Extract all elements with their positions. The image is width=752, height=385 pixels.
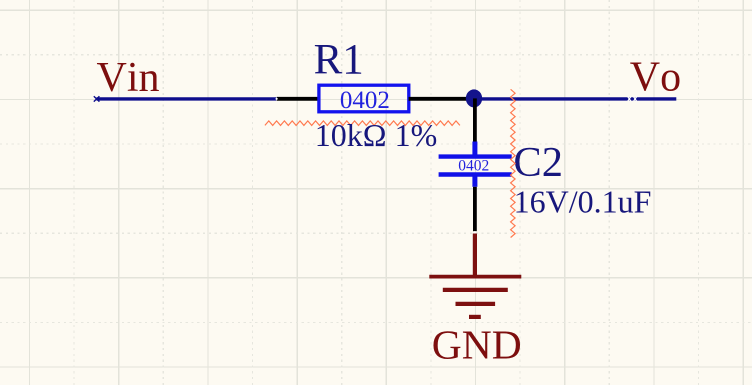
capacitor C2 pin 2 (black, down) [473,187,477,231]
ground bar 1 [429,275,521,279]
capacitor C2 plates [439,154,512,158]
svg-text:0402: 0402 [340,87,390,114]
wire cross markers near Vo label anchor [628,97,637,102]
compile-mask zigzag vertical right of C2 [511,89,515,237]
ground symbol GND [429,277,521,317]
svg-text:R1: R1 [314,36,364,83]
svg-text:0402: 0402 [458,157,489,174]
svg-text:10kΩ 1%: 10kΩ 1% [315,117,437,153]
resistor R1 pin 1 (black) [277,97,318,101]
ground bar 2 [443,288,508,292]
resistor R1 body [319,85,409,112]
svg-text:C2: C2 [513,139,563,186]
ground bar 4 [469,315,481,319]
svg-text:16V/0.1uF: 16V/0.1uF [514,184,652,220]
pin endpoint dot [276,98,278,100]
resistor R1 pin 2 (black) [409,97,474,101]
compile-mask zigzag under R1 [265,121,460,126]
capacitor C2 pin stubs (blue) [472,142,477,156]
svg-text:Vin: Vin [97,55,160,101]
wire end cross marker [94,96,100,101]
pin junction marker [474,231,476,233]
capacitor C2 pin 1 (black, from junction) [473,98,477,142]
svg-text:GND: GND [432,321,522,367]
ground bar 3 [456,302,496,306]
svg-text:Vo: Vo [630,55,681,101]
wire Vo net (navy) [480,97,676,100]
junction dot [466,89,482,107]
wire Vin net (navy) [97,97,277,100]
GND wire (maroon) [473,234,477,277]
